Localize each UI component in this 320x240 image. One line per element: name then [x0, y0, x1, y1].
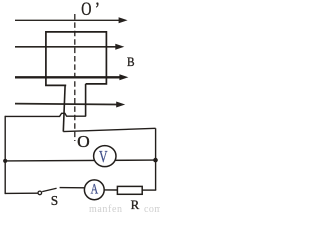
- switch S pivot: [38, 191, 42, 195]
- watermark: [89, 204, 162, 215]
- wire: right vertical: [155, 128, 157, 190]
- ammeter A: [84, 180, 104, 200]
- label O': [81, 0, 100, 20]
- field line B3: [15, 74, 128, 80]
- wire: bottom-left corner to switch: [5, 192, 37, 194]
- wire: ammeter to resistor: [104, 189, 117, 191]
- svg-text:com: com: [144, 204, 160, 214]
- coil right lead: [85, 84, 87, 117]
- wire: resistor to right vertical: [142, 189, 156, 191]
- switch S lever: [42, 188, 56, 191]
- wire: switch to ammeter: [60, 187, 85, 189]
- field line B2: [15, 44, 124, 50]
- wire: voltmeter branch: [5, 159, 155, 162]
- coil left lead: [63, 85, 65, 131]
- svg-text:manfen: manfen: [89, 204, 123, 214]
- coil (rectangular outline, gap in bottom edge): [46, 32, 107, 86]
- svg-text:O: O: [77, 132, 90, 151]
- svg-text:V: V: [99, 147, 108, 166]
- svg-text:O: O: [81, 0, 91, 20]
- field line B4: [15, 102, 125, 108]
- svg-text:S: S: [51, 194, 58, 209]
- junction node right: [153, 158, 158, 163]
- axis O-O' (dashed): [74, 14, 76, 141]
- field line B1: [15, 17, 128, 23]
- wire: left vertical: [4, 116, 6, 194]
- resistor R (box): [117, 186, 142, 194]
- junction node left: [3, 159, 7, 163]
- voltmeter V: [94, 146, 116, 167]
- svg-text:B: B: [127, 55, 135, 69]
- wire: top of meter loop (left lead corner to right side): [63, 128, 155, 131]
- svg-text:’: ’: [95, 0, 100, 20]
- svg-text:A: A: [91, 182, 99, 198]
- svg-text:R: R: [131, 198, 140, 212]
- wire: right lead to top-left corner (hop over left lead): [5, 113, 86, 116]
